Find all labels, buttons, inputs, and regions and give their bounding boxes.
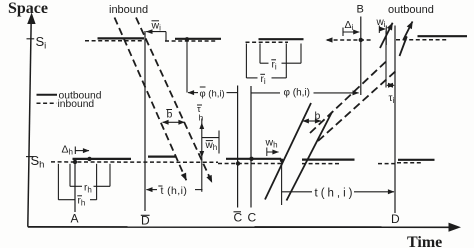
svg-text:Sh: Sh bbox=[31, 153, 45, 171]
svg-text:wh: wh bbox=[265, 137, 278, 150]
svg-text:ri: ri bbox=[261, 74, 266, 86]
svg-text:wh: wh bbox=[205, 140, 218, 152]
svg-text:wi: wi bbox=[376, 17, 386, 29]
svg-text:wi: wi bbox=[151, 20, 162, 33]
svg-text:B: B bbox=[357, 4, 364, 16]
svg-text:b: b bbox=[167, 109, 173, 121]
svg-text:rh: rh bbox=[78, 196, 86, 208]
svg-text:ri: ri bbox=[272, 60, 277, 72]
svg-text:t (h,i): t (h,i) bbox=[161, 185, 188, 197]
svg-text:inbound: inbound bbox=[58, 99, 95, 110]
svg-text:C: C bbox=[248, 211, 257, 225]
svg-text:h: h bbox=[199, 113, 204, 123]
svg-text:Time: Time bbox=[407, 234, 442, 248]
svg-text:b: b bbox=[315, 110, 321, 122]
svg-text:φ (h,i): φ (h,i) bbox=[284, 88, 310, 99]
svg-text:outbound: outbound bbox=[388, 4, 434, 16]
svg-text:φ (h,i): φ (h,i) bbox=[200, 89, 225, 100]
svg-text:inbound: inbound bbox=[109, 4, 148, 16]
svg-text:A: A bbox=[71, 212, 79, 226]
svg-text:rh: rh bbox=[84, 183, 92, 195]
svg-text:D: D bbox=[391, 212, 400, 226]
svg-text:Δh: Δh bbox=[62, 144, 73, 157]
svg-text:C: C bbox=[234, 211, 243, 225]
svg-text:τi: τi bbox=[389, 93, 395, 105]
svg-text:t(h,i): t(h,i) bbox=[315, 188, 356, 200]
svg-text:Space: Space bbox=[8, 0, 48, 17]
svg-text:Δi: Δi bbox=[345, 19, 354, 32]
svg-text:Si: Si bbox=[36, 34, 47, 52]
